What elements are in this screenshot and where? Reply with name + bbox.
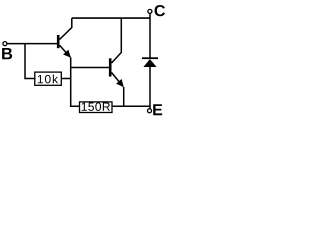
wire Q1 emitter vertical down to 150R xyxy=(71,57,80,106)
wire base of Q1 from terminal B xyxy=(7,43,57,45)
resistor 150R xyxy=(80,102,113,113)
wire top rail xyxy=(72,17,150,19)
terminal C xyxy=(148,9,152,13)
terminal E xyxy=(148,109,152,113)
wire 150R right lead / bottom rail to E xyxy=(112,105,150,107)
label B xyxy=(2,48,12,59)
transistor Q1 xyxy=(57,18,72,58)
transistor Q2 xyxy=(109,18,124,87)
wire C stub down to diode xyxy=(149,13,151,57)
label E xyxy=(153,104,162,115)
diode D1 xyxy=(142,57,158,67)
label C xyxy=(155,5,165,16)
terminal B xyxy=(3,42,7,46)
wire diode anode down to E rail xyxy=(149,67,151,109)
wire Q2 base xyxy=(71,67,109,69)
resistor 10k xyxy=(35,72,62,85)
wire 10k left branch from B line xyxy=(25,44,35,79)
wire 10k right lead to emitter node xyxy=(61,78,70,80)
wire Q2 emitter vertical to bottom rail xyxy=(123,87,125,107)
